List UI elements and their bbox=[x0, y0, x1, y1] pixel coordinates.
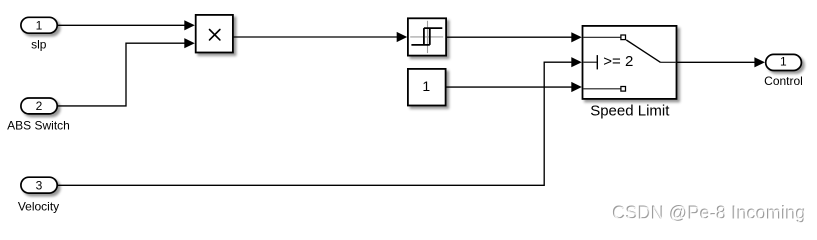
svg-text:Velocity: Velocity bbox=[18, 200, 59, 214]
svg-text:3: 3 bbox=[36, 179, 43, 193]
svg-text:1: 1 bbox=[422, 78, 430, 94]
svg-text:Control: Control bbox=[764, 74, 803, 88]
svg-text:1: 1 bbox=[36, 19, 43, 33]
svg-text:1: 1 bbox=[780, 54, 787, 68]
svg-text:CSDN @Pe-8 Incoming: CSDN @Pe-8 Incoming bbox=[613, 204, 806, 224]
svg-text:>= 2: >= 2 bbox=[603, 53, 633, 70]
svg-text:slp: slp bbox=[31, 37, 47, 51]
svg-text:ABS Switch: ABS Switch bbox=[7, 119, 70, 133]
svg-text:Speed Limit: Speed Limit bbox=[590, 102, 670, 119]
svg-text:2: 2 bbox=[36, 99, 43, 113]
